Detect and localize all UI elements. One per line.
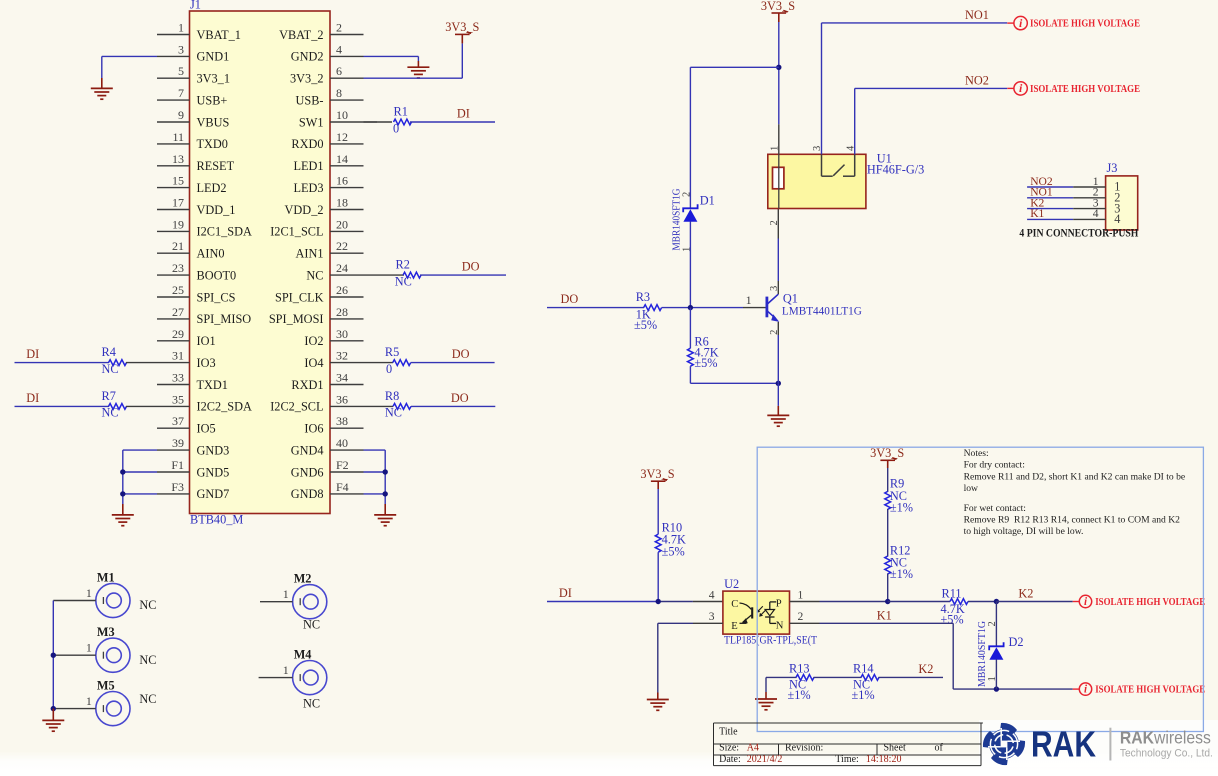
coil (U1) — [773, 167, 784, 189]
J1 pin 25 (SPI_CS) — [157, 296, 190, 298]
svg-text:SPI_CLK: SPI_CLK — [275, 290, 324, 304]
J1 pin 40 (GND4) — [330, 449, 364, 451]
wire K1 to J3 pin 4 — [1027, 218, 1073, 220]
wire U2 pin1 to K2 node — [790, 601, 820, 603]
resistor R1 — [394, 119, 412, 125]
junction (M5) — [51, 706, 56, 711]
J1 pin 9 (VBUS) — [157, 121, 190, 123]
svg-text:Remove R9 R12 R13 R14, connec: Remove R9 R12 R13 R14, connect K1 to COM… — [964, 515, 1181, 526]
wire U2 pin3 to ground — [693, 622, 723, 624]
svg-text:C: C — [731, 599, 738, 610]
J1 pin 17 (VDD_1) — [157, 209, 190, 211]
svg-text:2021/4/2: 2021/4/2 — [747, 754, 783, 765]
wire DI (to R7) — [15, 405, 110, 407]
ground (U2 pin3) — [657, 693, 659, 700]
svg-text:RAK: RAK — [1031, 723, 1096, 764]
J1 pin 5 (3V3_1) — [157, 77, 190, 79]
wire DI (to R4) — [15, 362, 110, 364]
svg-text:±1%: ±1% — [890, 567, 913, 581]
svg-text:DO: DO — [561, 292, 579, 306]
wire R9 to R12 — [887, 509, 889, 557]
J1 pin 7 (USB+) — [157, 99, 190, 101]
svg-text:14: 14 — [336, 152, 348, 166]
svg-text:LED2: LED2 — [197, 181, 227, 195]
svg-text:40: 40 — [336, 436, 348, 450]
svg-text:USB-: USB- — [295, 93, 323, 107]
svg-text:GND5: GND5 — [197, 465, 230, 479]
svg-text:SPI_MOSI: SPI_MOSI — [269, 312, 324, 326]
svg-text:Title: Title — [719, 727, 738, 738]
svg-text:R7: R7 — [102, 389, 116, 403]
svg-text:K1: K1 — [877, 609, 892, 623]
svg-text:P: P — [776, 599, 782, 610]
J1 pin 32 (IO4) — [330, 362, 364, 364]
svg-text:LED3: LED3 — [293, 181, 323, 195]
svg-text:29: 29 — [172, 327, 184, 341]
J1 pin 8 (USB-) — [330, 99, 364, 101]
svg-text:Time:: Time: — [835, 754, 859, 765]
wire NO1 — [821, 23, 823, 154]
svg-text:DI: DI — [457, 107, 470, 121]
junction (R3/D1/R6 node) — [688, 305, 693, 310]
wire DO (from R2) — [420, 274, 506, 276]
svg-text:F1: F1 — [171, 458, 184, 472]
svg-text:M5: M5 — [97, 678, 115, 692]
J1 pin 20 (I2C1_SCL) — [330, 230, 364, 232]
svg-text:8: 8 — [336, 86, 342, 100]
svg-text:TXD1: TXD1 — [197, 378, 228, 392]
svg-text:DO: DO — [462, 260, 480, 274]
junction (M3) — [51, 653, 56, 658]
svg-text:38: 38 — [336, 414, 348, 428]
wire GND4/GND6/GND8 bus — [364, 449, 386, 451]
svg-text:2: 2 — [336, 21, 342, 35]
wire 3V3_S to R9 — [887, 468, 889, 492]
svg-text:VBUS: VBUS — [197, 115, 230, 129]
wire R3 to Q1 base — [662, 307, 743, 309]
wire R13 — [766, 676, 797, 678]
svg-text:D1: D1 — [700, 194, 715, 208]
svg-text:IO1: IO1 — [197, 334, 216, 348]
svg-text:1: 1 — [987, 676, 998, 681]
J1 pin 36 (I2C2_SCL) — [330, 405, 364, 407]
svg-text:J3: J3 — [1107, 161, 1118, 175]
ground (left of J1) — [122, 504, 124, 515]
svg-text:3V3_S: 3V3_S — [761, 0, 795, 13]
wire GND3/GND5/GND7 bus — [123, 449, 157, 451]
no-ERC marker ISOLATE HIGH VOLTAGE (NO1) — [1007, 22, 1014, 24]
J1 pin 6 (3V3_2) — [330, 77, 364, 79]
svg-text:3: 3 — [178, 42, 184, 56]
svg-text:DI: DI — [26, 391, 39, 405]
svg-text:R5: R5 — [385, 345, 399, 359]
svg-text:2: 2 — [987, 621, 998, 626]
svg-text:HF46F-G/3: HF46F-G/3 — [867, 163, 924, 177]
resistor R13 row: ground — [765, 677, 767, 692]
svg-text:E: E — [731, 621, 737, 632]
svg-text:BOOT0: BOOT0 — [197, 268, 237, 282]
svg-text:1: 1 — [283, 663, 289, 677]
resistor R12 — [885, 556, 891, 574]
wire GND2 to ground — [364, 55, 419, 57]
svg-text:GND2: GND2 — [291, 50, 324, 64]
connector J3 — [1106, 176, 1138, 230]
svg-text:For wet contact:: For wet contact: — [964, 503, 1026, 514]
svg-text:NO2: NO2 — [965, 74, 989, 88]
wire DI (from R1) — [410, 121, 495, 123]
svg-text:Technology Co., Ltd.: Technology Co., Ltd. — [1120, 748, 1213, 760]
svg-text:15: 15 — [172, 174, 184, 188]
diode D2 — [995, 602, 997, 647]
svg-text:30: 30 — [336, 327, 348, 341]
mounting hole M1 — [96, 583, 130, 617]
svg-text:3: 3 — [709, 610, 715, 623]
ground (right of J1) — [384, 504, 386, 515]
wire to D1 cathode — [690, 66, 778, 68]
svg-text:NO1: NO1 — [965, 8, 989, 22]
svg-text:17: 17 — [172, 196, 184, 210]
svg-text:A4: A4 — [747, 743, 759, 754]
J1 pin 14 (LED1) — [330, 165, 364, 167]
svg-text:4: 4 — [1093, 207, 1099, 220]
J1 pin 28 (SPI_MOSI) — [330, 318, 364, 320]
svg-text:I2C1_SDA: I2C1_SDA — [197, 225, 252, 239]
relay U1 — [768, 154, 866, 208]
svg-text:18: 18 — [336, 196, 348, 210]
wire NO2 — [854, 88, 856, 154]
svg-text:K2: K2 — [1018, 586, 1033, 600]
wire R7 to I2C2_SDA — [126, 405, 157, 407]
junction (K2/D2) — [994, 599, 999, 604]
wire R6 to emitter node — [689, 366, 691, 383]
svg-text:to high voltage, DI will be lo: to high voltage, DI will be low. — [964, 526, 1084, 537]
logo divider — [1109, 728, 1111, 761]
mounting hole M2 — [293, 585, 327, 619]
svg-text:M4: M4 — [294, 647, 312, 661]
svg-text:3V3_S: 3V3_S — [445, 20, 479, 34]
wire K1 bottom run — [953, 688, 1072, 690]
connector J1 box — [190, 11, 331, 514]
junction (F4) — [383, 491, 388, 496]
power 3V3_S (top left) — [461, 34, 463, 43]
junction (DI/R10) — [656, 599, 661, 604]
svg-text:2: 2 — [681, 192, 692, 197]
resistor R9 — [885, 491, 891, 509]
no-ERC marker ISOLATE HIGH VOLTAGE (K2) — [1073, 601, 1080, 603]
svg-text:Revision:: Revision: — [785, 743, 823, 754]
svg-text:For dry contact:: For dry contact: — [964, 460, 1025, 471]
wire DO (from R8) — [411, 405, 495, 407]
U2 internal light arrows — [758, 606, 763, 611]
svg-text:GND7: GND7 — [197, 487, 230, 501]
svg-text:1: 1 — [798, 589, 804, 602]
svg-text:1: 1 — [86, 586, 92, 600]
svg-text:2: 2 — [769, 220, 780, 225]
svg-text:12: 12 — [336, 130, 348, 144]
svg-text:N: N — [776, 621, 784, 632]
svg-text:±5%: ±5% — [941, 613, 964, 627]
svg-text:Size:: Size: — [719, 743, 739, 754]
svg-text:34: 34 — [336, 371, 348, 385]
svg-text:TXD0: TXD0 — [197, 137, 228, 151]
svg-text:RXD0: RXD0 — [291, 137, 323, 151]
svg-text:I2C1_SCL: I2C1_SCL — [270, 225, 323, 239]
svg-text:NC: NC — [139, 598, 156, 612]
J1 pin 37 (IO5) — [157, 427, 190, 429]
svg-text:0: 0 — [393, 121, 399, 135]
notes frame (blue rectangle) — [757, 447, 1203, 731]
svg-text:SPI_MISO: SPI_MISO — [197, 312, 252, 326]
mounting hole M3 — [96, 638, 130, 672]
svg-text:4: 4 — [709, 589, 715, 602]
wire K2 to J3 pin 3 — [1027, 208, 1073, 210]
svg-text:1: 1 — [770, 146, 781, 151]
J1 pin 3 (GND1) — [157, 55, 190, 57]
resistor R3 — [644, 305, 662, 311]
pin 1 (M3) — [53, 654, 96, 656]
no-ERC marker ISOLATE HIGH VOLTAGE (NO2) — [1007, 87, 1014, 89]
svg-text:RAKwireless: RAKwireless — [1120, 728, 1211, 748]
J1 pin 30 (IO2) — [330, 340, 364, 342]
svg-text:NC: NC — [102, 406, 119, 420]
wire R10 to DI node — [657, 552, 659, 601]
J1 pin 18 (VDD_2) — [330, 209, 364, 211]
svg-text:±5%: ±5% — [694, 356, 717, 370]
svg-text:NC: NC — [139, 653, 156, 667]
svg-text:LED1: LED1 — [293, 159, 323, 173]
svg-text:VBAT_1: VBAT_1 — [197, 28, 241, 42]
J1 pin 35 (I2C2_SDA) — [157, 405, 190, 407]
svg-text:GND3: GND3 — [197, 443, 230, 457]
mounting hole M5 — [96, 692, 130, 726]
svg-text:27: 27 — [172, 305, 184, 319]
svg-text:ISOLATE HIGH VOLTAGE: ISOLATE HIGH VOLTAGE — [1095, 597, 1205, 608]
svg-text:16: 16 — [336, 174, 348, 188]
svg-text:1: 1 — [86, 694, 92, 708]
svg-text:1: 1 — [86, 641, 92, 655]
svg-text:36: 36 — [336, 392, 348, 406]
svg-text:R14: R14 — [853, 662, 874, 676]
svg-text:19: 19 — [172, 217, 184, 231]
svg-text:K2: K2 — [918, 662, 933, 676]
resistor R13 — [796, 675, 814, 681]
svg-text:RXD1: RXD1 — [291, 378, 323, 392]
svg-text:1: 1 — [746, 293, 752, 307]
svg-text:I2C2_SCL: I2C2_SCL — [270, 400, 323, 414]
svg-text:11: 11 — [172, 130, 184, 144]
svg-text:31: 31 — [172, 349, 184, 363]
optocoupler U2 — [723, 591, 790, 634]
J1 pin 26 (SPI_CLK) — [330, 296, 364, 298]
svg-text:low: low — [964, 483, 978, 494]
J1 pin 23 (BOOT0) — [157, 274, 190, 276]
svg-text:ISOLATE HIGH VOLTAGE: ISOLATE HIGH VOLTAGE — [1095, 685, 1205, 696]
resistor R10 — [655, 534, 661, 552]
pin 1 (M1) — [53, 600, 96, 602]
J1 pin 22 (AIN1) — [330, 252, 364, 254]
svg-text:TLP185(GR-TPL,SE(T: TLP185(GR-TPL,SE(T — [724, 632, 818, 646]
J1 pin 11 (TXD0) — [157, 143, 190, 145]
svg-text:23: 23 — [172, 261, 184, 275]
svg-text:39: 39 — [172, 436, 184, 450]
junction (R12 bottom) — [885, 599, 890, 604]
J1 pin 33 (TXD1) — [157, 384, 190, 386]
ground (Q1 emitter) — [777, 383, 779, 406]
svg-text:IO2: IO2 — [304, 334, 323, 348]
pin 1 (U1 coil top) — [778, 124, 780, 154]
svg-text:RESET: RESET — [197, 159, 235, 173]
svg-text:NC: NC — [385, 406, 402, 420]
svg-text:3V3_2: 3V3_2 — [290, 72, 323, 86]
junction (F2) — [383, 469, 388, 474]
svg-text:0: 0 — [386, 362, 392, 376]
contact symbol (U1) — [821, 154, 823, 176]
svg-text:ISOLATE HIGH VOLTAGE: ISOLATE HIGH VOLTAGE — [1030, 19, 1140, 30]
junction (3V3_S node) — [776, 65, 781, 70]
svg-text:GND8: GND8 — [291, 487, 324, 501]
svg-text:Remove R11 and D2, short K1 an: Remove R11 and D2, short K1 and K2 can m… — [964, 472, 1186, 483]
svg-text:±1%: ±1% — [788, 688, 811, 702]
svg-text:10: 10 — [336, 108, 348, 122]
svg-text:ISOLATE HIGH VOLTAGE: ISOLATE HIGH VOLTAGE — [1030, 84, 1140, 95]
svg-text:±1%: ±1% — [890, 500, 913, 514]
svg-text:AIN0: AIN0 — [197, 247, 225, 261]
J1 pin 16 (LED3) — [330, 187, 364, 189]
resistor R11 — [950, 599, 968, 605]
wire R11 to K2 — [968, 601, 996, 603]
svg-text:of: of — [935, 743, 944, 754]
svg-text:K1: K1 — [1030, 207, 1044, 220]
wire U2 pin2 (K1) — [790, 622, 820, 624]
svg-text:35: 35 — [172, 392, 184, 406]
J1 pin F1 (GND5) — [157, 471, 190, 473]
svg-text:4: 4 — [336, 42, 342, 56]
wire NC pin24 to R2 — [364, 274, 405, 276]
J1 pin 12 (RXD0) — [330, 143, 364, 145]
svg-text:22: 22 — [336, 239, 348, 253]
svg-text:21: 21 — [172, 239, 184, 253]
wire 3V3_S down to relay — [778, 22, 780, 67]
svg-text:GND4: GND4 — [291, 443, 324, 457]
svg-text:VDD_2: VDD_2 — [285, 203, 324, 217]
wire R12 to K2 node — [887, 574, 889, 602]
J1 pin 10 (SW1) — [330, 121, 364, 123]
wire GND1 to ground — [102, 55, 157, 57]
svg-text:Notes:: Notes: — [964, 448, 989, 459]
svg-text:Date:: Date: — [719, 754, 741, 765]
J1 pin 13 (RESET) — [157, 165, 190, 167]
wire Q1 emitter down — [777, 322, 779, 335]
svg-text:NC: NC — [395, 274, 412, 288]
J1 pin 29 (IO1) — [157, 340, 190, 342]
resistor R7 — [109, 404, 127, 410]
J1 pin F4 (GND8) — [330, 493, 364, 495]
svg-text:GND6: GND6 — [291, 465, 324, 479]
resistor R2 — [403, 272, 421, 278]
J1 pin 19 (I2C1_SDA) — [157, 230, 190, 232]
pin 1 (M2) — [260, 601, 293, 603]
svg-text:GND1: GND1 — [197, 50, 230, 64]
svg-text:33: 33 — [172, 371, 184, 385]
svg-text:IO3: IO3 — [197, 356, 216, 370]
wire IO4 to R5 — [364, 362, 394, 364]
resistor R6 — [689, 308, 691, 349]
svg-text:NC: NC — [306, 268, 323, 282]
svg-text:3V3_S: 3V3_S — [640, 467, 674, 481]
svg-text:J1: J1 — [190, 0, 201, 12]
resistor R5 — [393, 360, 411, 366]
junction (D2 anode) — [994, 686, 999, 691]
svg-text:I2C2_SDA: I2C2_SDA — [197, 400, 252, 414]
wire 3V3_S to R10 — [657, 489, 659, 534]
J1 pin F2 (GND6) — [330, 471, 364, 473]
J1 pin F3 (GND7) — [157, 493, 190, 495]
J1 pin 31 (IO3) — [157, 362, 190, 364]
svg-text:DO: DO — [452, 347, 470, 361]
svg-text:Q1: Q1 — [783, 291, 798, 305]
J1 pin 21 (AIN0) — [157, 252, 190, 254]
diode D1 — [683, 209, 697, 222]
svg-text:Sheet: Sheet — [884, 743, 906, 754]
wire through coil — [778, 154, 780, 208]
svg-text:D2: D2 — [1009, 635, 1024, 649]
wire I2C2_SCL to R8 — [364, 405, 394, 407]
svg-text:9: 9 — [178, 108, 184, 122]
svg-text:NC: NC — [303, 617, 320, 631]
J1 pin 24 (NC) — [330, 274, 364, 276]
resistor R8 — [393, 404, 411, 410]
wire R13 to R14 — [814, 676, 862, 678]
resistor R4 — [109, 360, 127, 366]
J1 pin 27 (SPI_MISO) — [157, 318, 190, 320]
wire relay pin2 to Q1 collector — [777, 209, 779, 239]
svg-text:NC: NC — [139, 692, 156, 706]
svg-text:R3: R3 — [636, 290, 650, 304]
svg-text:DI: DI — [26, 347, 39, 361]
svg-text:1: 1 — [283, 587, 289, 601]
svg-text:NC: NC — [102, 362, 119, 376]
wire DI to U2 pin4 — [547, 601, 658, 603]
svg-text:NC: NC — [303, 696, 320, 710]
svg-text:R13: R13 — [789, 662, 810, 676]
svg-text:R4: R4 — [102, 345, 116, 359]
svg-text:R11: R11 — [942, 586, 962, 600]
svg-text:6: 6 — [336, 64, 342, 78]
svg-text:±5%: ±5% — [634, 318, 657, 332]
wire 3V3_2 to 3V3_S — [364, 77, 463, 79]
svg-text:R8: R8 — [385, 389, 399, 403]
svg-text:U2: U2 — [724, 577, 739, 591]
svg-text:±5%: ±5% — [662, 545, 685, 559]
svg-text:13: 13 — [172, 152, 184, 166]
svg-text:32: 32 — [336, 349, 348, 363]
wire K2 stub from R14 — [879, 676, 944, 678]
svg-text:3V3_S: 3V3_S — [870, 446, 904, 460]
svg-text:±1%: ±1% — [852, 688, 875, 702]
RAK logo icon — [983, 723, 1025, 765]
svg-text:3V3_1: 3V3_1 — [197, 72, 230, 86]
svg-text:37: 37 — [172, 414, 184, 428]
svg-text:SPI_CS: SPI_CS — [197, 290, 236, 304]
junction (F1) — [120, 469, 125, 474]
svg-text:VDD_1: VDD_1 — [197, 203, 236, 217]
svg-text:USB+: USB+ — [197, 93, 228, 107]
svg-text:4: 4 — [1114, 212, 1120, 226]
svg-text:LMBT4401LT1G: LMBT4401LT1G — [782, 304, 863, 317]
ground (GND1) — [101, 78, 103, 88]
svg-text:1: 1 — [178, 21, 184, 35]
svg-text:F3: F3 — [171, 480, 184, 494]
